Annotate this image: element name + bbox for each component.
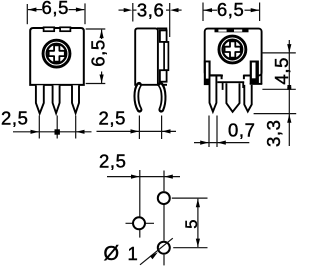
hole middle-left [133, 217, 145, 229]
top slot band V3 [215, 29, 249, 32]
pin 2 V3 (wide) [226, 83, 239, 112]
bottom edge extension V2 [157, 84, 167, 86]
pin 1 V3 [210, 76, 217, 112]
body V1 [30, 28, 84, 85]
svg-text:3,3: 3,3 [263, 119, 284, 147]
stub A V3 [221, 75, 223, 79]
foot bar left V3 [209, 74, 222, 76]
stub B V3 [243, 75, 245, 79]
svg-text:Ø: Ø [104, 243, 120, 265]
svg-text:4,5: 4,5 [271, 57, 292, 85]
dimension 6,5 right V1 (vertical) [86, 29, 106, 84]
pin inner white V2 [136, 86, 139, 110]
svg-text:2,5: 2,5 [99, 108, 127, 129]
bent pin left V2 [136, 85, 139, 110]
top slot 2 V1 [60, 27, 70, 31]
leader line diameter [140, 238, 173, 265]
rotor strip V2 [164, 42, 168, 70]
top edge extension V2 [157, 28, 166, 31]
body V3 [205, 29, 262, 76]
dimension 2,5 [107, 170, 180, 265]
svg-text:5: 5 [183, 219, 201, 229]
right edge lower V3 [260, 60, 262, 84]
svg-text:2,5: 2,5 [1, 107, 29, 128]
hole bottom-right [158, 242, 170, 254]
body V2 [135, 28, 158, 84]
dimension 2,5 bottom V2 [97, 116, 177, 140]
svg-text:3,6: 3,6 [137, 0, 165, 20]
svg-text:0,7: 0,7 [228, 120, 256, 141]
screw inner circle V1 [47, 44, 67, 64]
dimension 0,7 bottom V3 [194, 116, 249, 148]
svg-text:2,5: 2,5 [99, 150, 127, 171]
dimension 4,5 right V3 [262, 40, 296, 146]
screw outer circle V1 [43, 40, 70, 67]
dimension 6,5 top V3 [203, 3, 260, 22]
dimension 3,3 right-bottom V3 [254, 113, 297, 115]
pin 1 V1 [36, 85, 44, 113]
left leg V3 [204, 61, 211, 86]
pin 3 V1 [72, 85, 79, 113]
top clip V2 [160, 30, 167, 42]
erase center bottom of body V3 [223, 73, 243, 78]
svg-text:6,5: 6,5 [217, 0, 245, 20]
dimension 2,5 bottom V1 [13, 116, 92, 139]
screw inner circle V3 [223, 40, 243, 60]
phillips cross V1 [49, 45, 65, 61]
svg-text:1: 1 [128, 243, 139, 264]
phillips cross V3 [225, 41, 241, 57]
right leg V3 [250, 61, 259, 85]
pin 2 V1 [53, 85, 60, 113]
bent pin right V2 [161, 85, 164, 110]
svg-text:6,5: 6,5 [42, 0, 70, 18]
crosshair horizontal of left hole [126, 222, 155, 224]
screw outer circle V3 [219, 36, 246, 63]
stub C V3 [222, 82, 224, 90]
top slot 1 V1 [44, 27, 55, 31]
stub D V3 [242, 82, 244, 88]
svg-text:6,5: 6,5 [87, 39, 108, 67]
center bottom edge V3 [217, 81, 244, 83]
dimension 5 (vertical) [172, 198, 208, 248]
hole top-right [158, 192, 170, 204]
bottom clip V2 [160, 70, 167, 82]
dimension 6,5 top V1 [27, 3, 85, 24]
dimension 3,6 top V2 [119, 3, 182, 37]
pin 3 V3 [244, 85, 251, 112]
